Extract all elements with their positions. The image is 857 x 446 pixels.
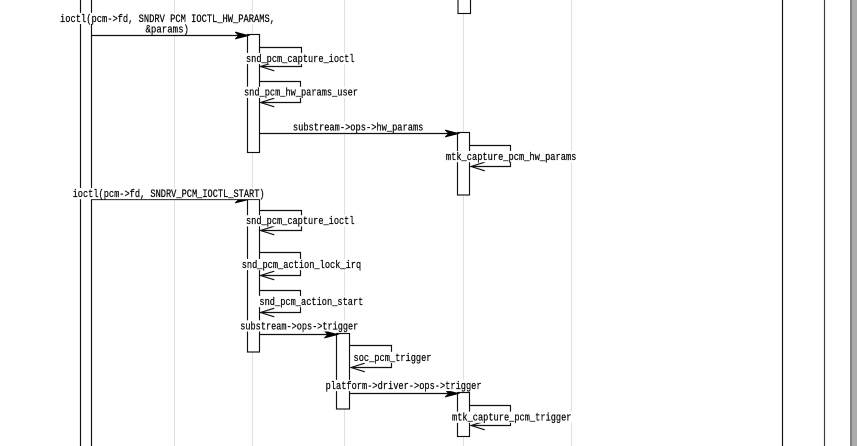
message arrow platform->driver->ops->trigger xyxy=(350,393,450,395)
label mtk_capture_pcm_trigger xyxy=(451,412,574,423)
lifeline participant4 xyxy=(344,0,346,446)
svg-text:snd_pcm_capture_ioctl: snd_pcm_capture_ioctl xyxy=(246,54,355,66)
label platform->driver->ops->trigger xyxy=(324,380,483,391)
self call bracket snd_pcm_action_start xyxy=(259,291,301,313)
label substream->ops->trigger xyxy=(239,320,360,331)
self call bracket snd_pcm_hw_params_user xyxy=(259,82,301,103)
self call bracket snd_pcm_action_lock_irq xyxy=(259,253,301,276)
svg-text:mtk_capture_pcm_hw_params: mtk_capture_pcm_hw_params xyxy=(446,152,577,164)
svg-text:snd_pcm_action_lock_irq: snd_pcm_action_lock_irq xyxy=(242,260,362,272)
label snd_pcm_capture_ioctl (1) xyxy=(245,53,357,64)
activation bar A snd_pcm (section 1) xyxy=(248,35,260,153)
svg-text:snd_pcm_hw_params_user: snd_pcm_hw_params_user xyxy=(244,88,358,100)
page border line xyxy=(782,0,784,446)
label snd_pcm_action_start xyxy=(258,296,365,307)
lifeline participant3 xyxy=(252,0,254,446)
self call bracket snd_pcm_capture_ioctl (2) xyxy=(259,211,302,231)
self call bracket mtk_capture_pcm_trigger xyxy=(470,406,511,426)
message arrow ioctl HW_PARAMS xyxy=(92,35,240,37)
svg-text:ioctl(pcm->fd, SNDRV_PCM_IOCTL: ioctl(pcm->fd, SNDRV_PCM_IOCTL_START) xyxy=(73,189,265,201)
lifeline participant2 xyxy=(174,0,176,446)
label snd_pcm_capture_ioctl (2) xyxy=(245,215,357,226)
activation bar D mtk trigger xyxy=(458,393,470,437)
message arrow ioctl START xyxy=(92,199,240,201)
panel border line xyxy=(824,0,826,446)
message arrow substream->ops->trigger xyxy=(259,334,328,336)
label ioctl(pcm->fd, SNDRV PCM IOCTL_HW_PARAMS, xyxy=(59,13,277,24)
caller activation bar (full height) xyxy=(80,0,92,446)
scrollbar gray band xyxy=(852,0,857,446)
activation bar B snd_pcm (section 2) xyxy=(248,200,260,353)
svg-text:substream->ops->trigger: substream->ops->trigger xyxy=(240,321,358,333)
lifeline participant6 xyxy=(571,0,573,446)
svg-text:mtk_capture_pcm_trigger: mtk_capture_pcm_trigger xyxy=(452,413,572,425)
label snd_pcm_action_lock_irq xyxy=(240,259,363,270)
svg-text:soc_pcm_trigger: soc_pcm_trigger xyxy=(354,353,432,365)
label soc_pcm_trigger xyxy=(352,352,433,363)
activation bar mtk hw_params xyxy=(458,133,470,196)
label mtk_capture_pcm_hw_params xyxy=(444,151,578,162)
label substream->ops->hw_params xyxy=(291,121,425,132)
lifeline participant5 xyxy=(463,0,465,446)
activation bar C soc_pcm xyxy=(337,334,350,410)
label snd_pcm_hw_params_user xyxy=(243,87,360,98)
svg-text:substream->ops->hw_params: substream->ops->hw_params xyxy=(293,122,424,134)
self call bracket snd_pcm_capture_ioctl (1) xyxy=(259,48,302,67)
label &params) xyxy=(144,24,191,35)
partial activation bar top (previous call remnant) xyxy=(458,0,471,14)
svg-text:&params): &params) xyxy=(146,24,190,36)
svg-text:snd_pcm_action_start: snd_pcm_action_start xyxy=(259,297,363,309)
label ioctl(pcm->fd, SNDRV_PCM_IOCTL_START) xyxy=(71,188,266,199)
svg-text:snd_pcm_capture_ioctl: snd_pcm_capture_ioctl xyxy=(246,216,355,228)
scrollbar edge line xyxy=(850,0,852,446)
self call bracket mtk_capture_pcm_hw_params xyxy=(470,146,511,167)
svg-text:platform->driver->ops->trigger: platform->driver->ops->trigger xyxy=(326,381,482,393)
self call bracket soc_pcm_trigger xyxy=(350,346,392,368)
message arrow substream->ops->hw_params xyxy=(259,133,449,135)
